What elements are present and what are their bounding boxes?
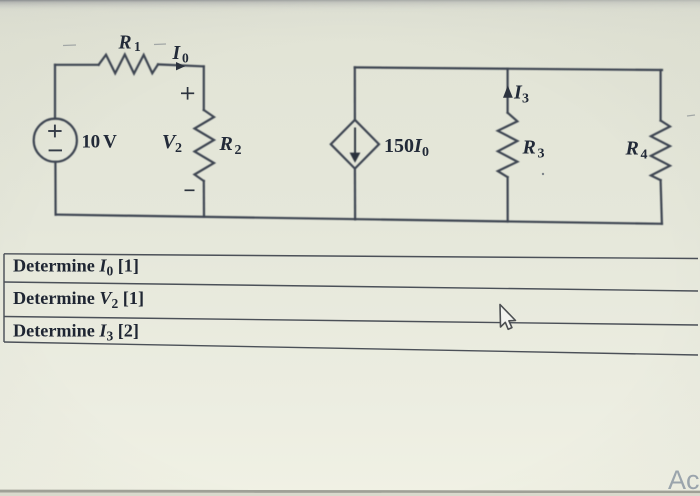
dependent current source 150I0 diamond [331,120,379,169]
svg-text:Determine I3 [2]: Determine I3 [2] [13,321,139,344]
wire R4 branch upper [659,70,661,121]
V1 minus sign [49,149,62,151]
table line 3 [4,317,698,326]
svg-text:Determine I0 [1]: Determine I0 [1] [13,256,139,279]
svg-text:R: R [118,32,132,53]
wire right vertical loop1 upper [203,66,205,110]
wire right vertical loop1 lower [203,181,205,217]
label R4 [625,138,648,163]
question table lines [4,254,698,355]
label V2 [162,131,182,156]
svg-text:R: R [522,137,536,159]
svg-text:R: R [625,138,639,160]
wire dep-source vertical upper [354,67,356,119]
table line 2 [4,282,698,291]
svg-text:R: R [219,133,233,155]
resistor R3 [498,113,518,177]
table left border [3,254,5,342]
svg-text:I: I [172,43,182,64]
voltage source V1 circle [34,119,77,162]
svg-text:2: 2 [175,141,182,156]
R2 plus polarity mark [181,87,195,190]
label I3 [513,82,529,107]
arrow I0 head on top wire [176,62,185,70]
label R1 [118,32,142,54]
table line 4 [4,342,698,355]
label R3 [522,137,545,162]
bottom screen edge line [0,490,700,494]
label I0 [172,43,190,66]
wire dep-source vertical lower [354,169,356,220]
V1 plus sign [48,125,62,151]
wire R3 branch upper [507,69,509,113]
wire top rail loop2 [355,67,662,70]
svg-text:2: 2 [235,143,242,158]
svg-text:4: 4 [641,148,648,163]
table line 1 [4,254,698,259]
wire R3 branch lower [507,177,509,221]
svg-text:0: 0 [182,50,189,65]
top grey screen edge band [0,0,700,12]
svg-text:3: 3 [522,92,529,107]
wire left vertical lower [54,162,56,215]
resistor R1 [99,55,158,74]
svg-text:1: 1 [134,39,141,54]
row text Determine I0 [1] [13,256,144,344]
svg-text:3: 3 [538,147,545,162]
label R2 [219,133,242,158]
wire top rail loop1 left segment [55,64,99,66]
wire bottom rail [56,215,662,224]
svg-text:Ac: Ac [668,465,700,495]
R2 minus polarity mark [185,189,195,191]
wire top rail loop1 right segment [158,64,204,66]
resistor R2 [195,110,215,181]
current source internal arrow [350,128,361,163]
label 150I0 [384,135,429,160]
svg-text:10 V: 10 V [82,131,118,152]
arrow I3 head on R3 branch [503,86,513,98]
wire R4 branch lower / right vertical [661,180,662,224]
mouse cursor [500,305,516,330]
svg-text:150: 150 [384,135,414,157]
wire left vertical upper [54,65,56,119]
faint stray marks [63,44,695,116]
svg-text:0: 0 [422,145,429,160]
resistor R4 [651,121,670,181]
svg-text:Determine V2 [1]: Determine V2 [1] [13,288,144,311]
